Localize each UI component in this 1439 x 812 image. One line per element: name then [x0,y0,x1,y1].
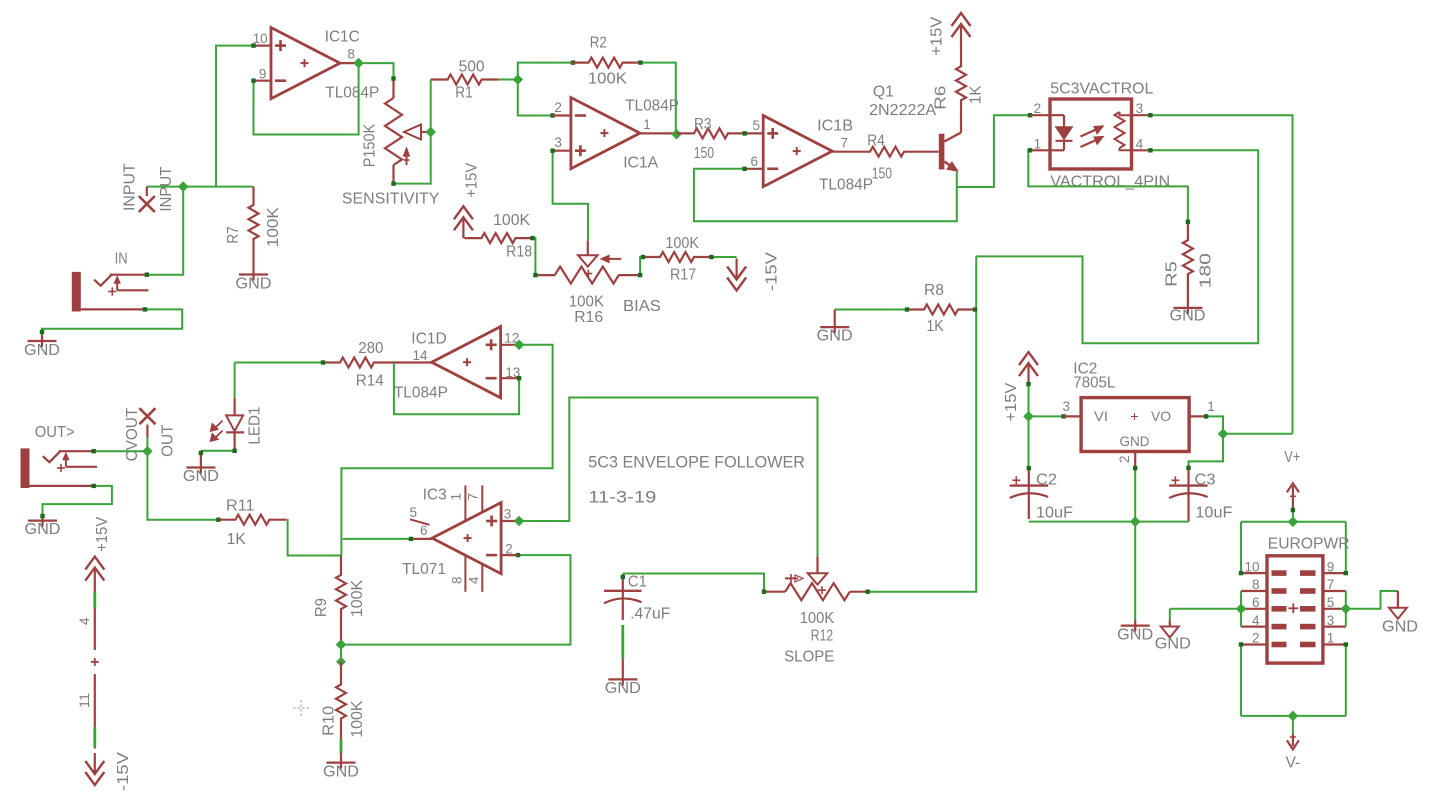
ground of OUT jack [28,514,57,527]
IC3 pin 1 [449,493,464,501]
svg-text:10uF: 10uF [1036,505,1073,522]
value 1K of R6 [968,85,985,104]
wire junction up to R2 [518,60,575,79]
svg-text:500: 500 [459,59,485,76]
wire junction down to IC1A pin2 [518,80,555,118]
pin 5 [752,118,760,133]
IC3 pin 5 [409,505,417,520]
EUROPWR pins [1241,570,1346,647]
connector EUROPWR box [1267,556,1323,663]
svg-text:8: 8 [1252,577,1260,592]
svg-text:GND: GND [24,342,60,359]
label IC1B [817,118,853,135]
node CVOUT junction [143,447,152,456]
wire IC2 out to C3 [1189,434,1224,468]
resistor R18 [465,233,533,243]
resistor R7 [249,187,259,275]
svg-text:R17: R17 [670,267,696,284]
svg-text:R1: R1 [455,84,473,101]
R12 wiper arrow [808,556,828,584]
supply -15V at R17 [727,259,746,291]
supply +15V above R6 [952,13,971,45]
op-amp IC1C [254,28,359,99]
label IN [115,250,128,267]
svg-text:EUROPWR: EUROPWR [1268,536,1350,553]
op-amp power pin 4 line [93,589,96,650]
wire wiper junction to R1 [430,80,432,133]
svg-text:150: 150 [872,165,892,182]
svg-text:INPUT: INPUT [158,166,175,211]
svg-text:280: 280 [358,340,383,357]
ground below C1 [608,679,637,685]
wire pin5 to GND symbol [1346,591,1398,609]
svg-text:GND: GND [1120,433,1150,449]
pin 7 [841,136,849,151]
vactrol pin 3 [1136,101,1144,116]
label -15V of op-amp power [115,752,132,791]
wire R18 to R16 [533,238,556,275]
op-amp power plus [91,658,99,666]
op-amp IC1A [553,98,676,169]
wire IC3 out to envelope [519,398,817,557]
value 2N2222A of Q1 [869,102,936,119]
svg-text:11-3-19: 11-3-19 [588,487,656,506]
resistor R17 [643,252,711,262]
label C3 [1195,472,1216,489]
wire CVOUT junction to R11 [147,451,220,522]
svg-text:R6: R6 [932,86,949,110]
label 5C3VACTROL [1050,80,1153,97]
svg-text:2: 2 [554,100,562,115]
svg-text:GND: GND [817,328,853,345]
svg-text:3: 3 [1062,399,1070,414]
value 500 of R1 [459,59,485,76]
svg-text:OUT: OUT [160,424,177,457]
wire rail to GND [1134,522,1136,620]
svg-text:IC1B: IC1B [817,118,853,135]
svg-text:R7: R7 [225,226,242,243]
node header pin5 junction [1341,604,1350,613]
svg-text:.47uF: .47uF [630,606,670,623]
svg-text:TL071: TL071 [402,561,446,578]
value 7805L of IC2 [1073,375,1115,392]
value 280 of R14 [358,340,383,357]
svg-text:1: 1 [449,493,464,501]
svg-text:1: 1 [643,117,651,132]
label R7 [225,226,242,243]
origin cross [293,700,309,716]
wire R16 to R17 [640,257,643,275]
label R8 [924,282,944,299]
C3 plus mark [1171,476,1179,484]
svg-text:5: 5 [752,118,760,133]
label EUROPWR [1268,536,1350,553]
supply +15V at R18 [454,206,473,238]
net label OUT [160,424,177,457]
label BIAS [623,298,661,315]
value 100K of R7 [265,207,282,247]
wire ground rail [1029,521,1189,523]
svg-text:R5: R5 [1164,261,1181,287]
svg-text:180: 180 [1197,253,1214,289]
svg-text:TL084P: TL084P [325,84,379,101]
wire IC2 pin2 to ground rail [1134,468,1136,521]
svg-text:GND: GND [183,468,219,485]
label R14 [356,373,384,390]
label +15V above R6 [929,16,946,55]
transistor Q1 [939,117,961,171]
wire C1 top to R12 [623,574,764,592]
vactrol photoresistor [1115,112,1132,150]
node IC3 output junction [515,516,524,525]
wire R8 left to GND [835,307,910,311]
label C1 [628,574,647,591]
op-amp IC1D [391,327,519,398]
svg-text:14: 14 [413,348,428,363]
IC3 pin 6 [420,523,428,538]
R12 rotation arrow [785,574,803,583]
wire OUT sleeve to GND [43,484,112,514]
IC3 balance pins [465,485,482,591]
pin 12 [504,330,519,345]
value 10uF of C2 [1036,505,1073,522]
ground below R7 [239,275,268,281]
svg-text:GND: GND [1117,627,1153,644]
node IC1C output junction [354,59,363,68]
svg-text:GND: GND [236,275,272,292]
svg-text:5: 5 [409,505,417,520]
svg-text:-15V: -15V [115,752,132,791]
potentiometer R16 [535,267,640,284]
label +15V above IC2 [1003,382,1020,421]
label R6 [932,86,949,110]
svg-text:3: 3 [504,507,512,522]
value 1K of R11 [227,531,246,548]
svg-text:1K: 1K [968,85,985,104]
wire IC1C feedback out to pin9 [251,63,358,134]
resistor R9 [336,556,346,645]
pin 4 label [77,617,92,625]
pin 1 [643,117,651,132]
svg-text:11: 11 [77,693,92,708]
label LED1 [247,407,264,445]
wire V+ to header [1292,508,1294,522]
svg-text:IC1C: IC1C [325,28,360,45]
svg-text:7: 7 [1327,577,1335,592]
svg-text:R12: R12 [811,627,833,644]
label OUT> [35,424,75,441]
svg-text:2: 2 [1034,101,1042,116]
svg-text:4: 4 [1136,136,1144,151]
label R3 [694,116,712,133]
svg-text:R8: R8 [924,282,944,299]
IC3 pin 8 [450,576,465,584]
svg-text:TL084P: TL084P [394,385,448,402]
svg-text:SLOPE: SLOPE [784,649,834,666]
svg-text:3: 3 [1327,613,1335,628]
ground below R5 [1173,291,1202,314]
label IC1C [325,28,360,45]
wire junction to IC2 pin3 [1029,414,1066,418]
svg-text:R3: R3 [694,116,712,133]
supply V- arrow [1287,734,1299,749]
LED1 emission arrows [210,421,222,442]
node IC1A output junction [672,130,681,139]
svg-text:9: 9 [1327,559,1335,574]
wire IC1D feedback [394,363,521,415]
svg-text:+: + [1130,408,1138,424]
svg-text:IC1D: IC1D [411,331,446,348]
wire IC1A pin3 to BIAS wiper [550,149,588,241]
R12 plus mark [818,586,826,594]
potentiometer P150K [385,79,421,184]
label V+ [1284,449,1300,466]
label V- [1286,755,1301,772]
svg-text:6: 6 [420,523,428,538]
C2 plus mark [1012,476,1020,484]
svg-text:R4: R4 [867,133,885,150]
node P150K wiper junction [426,127,435,136]
svg-text:100K: 100K [800,610,835,627]
value 150 of R3 [694,145,714,162]
svg-text:1K: 1K [227,531,246,548]
svg-text:2: 2 [505,542,513,557]
voltage regulator IC2 box [1064,398,1207,469]
svg-text:100K: 100K [493,212,530,229]
node R1 output junction [513,75,522,84]
label IC2 [1073,360,1097,377]
resistor R14 [323,358,391,368]
svg-text:2N2222A: 2N2222A [869,102,936,119]
date 11-3-19 [588,487,656,506]
supply +15V of op-amp power [85,557,104,589]
svg-text:SENSITIVITY: SENSITIVITY [342,191,440,208]
svg-text:TL084P: TL084P [625,98,679,115]
svg-text:1: 1 [1034,136,1042,151]
wire P150K bottom to wiper [394,132,431,184]
diode LED1 [226,398,244,451]
pin 6 [750,154,758,169]
wire Q1 emitter junction [957,113,1032,187]
jack IN [72,272,149,312]
supply -15V of op-amp power [85,753,104,785]
label R17 [670,267,696,284]
pin 11 label [77,693,92,708]
wire junction to jack tip [145,187,184,277]
wire IC1D pin12 to envelope net [341,345,552,556]
IC2 pin 2 [1117,455,1132,463]
svg-text:GND: GND [605,680,641,697]
svg-text:INPUT: INPUT [122,163,139,211]
vactrol pin 1 [1034,136,1042,151]
wire header pin1 down [1345,645,1347,716]
resistor R8 [907,305,975,315]
IC2 text VO [1151,408,1171,424]
svg-text:10uF: 10uF [1195,505,1232,522]
node R9 bottom junction [336,640,345,649]
R16 wiper arrow [578,241,598,267]
svg-text:VACTROL_4PIN: VACTROL_4PIN [1050,173,1170,190]
svg-text:7805L: 7805L [1073,375,1115,392]
label P150K [361,124,378,168]
wire R8 right up [975,256,976,309]
supply V+ arrow [1287,483,1299,508]
wire IC2 out to vactrol net [1223,433,1293,435]
svg-text:5C3VACTROL: 5C3VACTROL [1050,80,1153,97]
label +15V of op-amp power [94,516,111,551]
wire IC3 pin6 [343,537,413,541]
optocoupler 5C3VACTROL box [1030,99,1150,169]
net flag INPUT X [139,196,155,212]
svg-text:GND: GND [1170,308,1206,325]
label R1 [455,84,473,101]
label GND of R7 [236,275,272,292]
ground below rail [1121,620,1150,632]
node V- junction [1288,711,1297,720]
svg-text:GND: GND [323,763,359,780]
wire vactrol pin3 to 7805 out [1148,113,1292,434]
svg-text:3: 3 [1136,101,1144,116]
ground left of R8 [820,310,849,334]
IC3 pin 2 [505,542,513,557]
node INPUT junction [179,182,188,191]
wire R1 to junction [499,79,518,81]
svg-text:+15V: +15V [1003,382,1020,421]
label GND of OUT jack [25,521,61,538]
svg-text:-15V: -15V [764,252,781,291]
svg-text:V+: V+ [1284,449,1300,466]
svg-text:7: 7 [465,493,480,501]
wire IC2 pin1 to junction [1204,414,1223,434]
label R4 [867,133,885,150]
pin 2 [554,100,562,115]
wire INPUT net horizontal [147,186,254,188]
label R5 [1164,261,1181,287]
value 180 of R5 [1197,253,1214,289]
label TL084P of IC1A [625,98,679,115]
svg-text:Q1: Q1 [873,84,894,101]
svg-text:100K: 100K [349,579,366,617]
value 10uF of C3 [1195,505,1232,522]
svg-text:IC3: IC3 [423,487,447,504]
node R9-R10 junction [337,658,345,666]
pin contact dots [40,76,1348,646]
svg-text:8: 8 [450,576,465,584]
IC2 text plus [1130,408,1138,424]
svg-text:100K: 100K [665,235,699,252]
P150K wiper arrow [404,125,431,140]
resistor R11 [218,515,286,525]
net flag CVOUT X [139,408,155,424]
IC2 text VI [1094,408,1108,424]
value 150 of R4 [872,165,892,182]
wire header right to pin9 [1345,522,1347,573]
svg-text:BIAS: BIAS [623,298,661,315]
title 5C3 ENVELOPE FOLLOWER [588,453,805,472]
label GND of rail [1117,627,1153,644]
svg-text:6: 6 [750,154,758,169]
label +15V at R18 [463,162,480,197]
svg-text:VO: VO [1151,408,1171,424]
svg-text:2: 2 [1117,455,1132,463]
svg-text:LED1: LED1 [247,407,264,445]
value 1K of R8 [927,318,944,335]
svg-text:4: 4 [466,576,481,584]
svg-text:6: 6 [1252,595,1260,610]
svg-text:OUT>: OUT> [35,424,75,441]
label GND of C1 [605,680,641,697]
label IC3 [423,487,447,504]
resistor R6 [956,45,966,117]
ground below LED1 [186,451,215,474]
node IC1D pin12 junction [515,340,524,349]
svg-text:1: 1 [1327,631,1335,646]
label GND left of header [1155,636,1191,653]
svg-text:4: 4 [1252,613,1260,628]
svg-text:C1: C1 [628,574,647,591]
label GND of IN jack [24,342,60,359]
label R18 [506,244,532,261]
wire IC1C pin10 to INPUT net [216,43,256,186]
svg-text:R14: R14 [356,373,384,390]
svg-text:R10: R10 [320,706,337,736]
svg-text:+15V: +15V [463,162,480,197]
vactrol pin 4 [1136,136,1144,151]
IC2 pin 3 [1062,399,1070,414]
label IC1D [411,331,446,348]
EUROPWR plus mark [1288,603,1298,613]
ground triangle left of header [1161,621,1179,638]
op-amp power pin 11 line [93,674,96,749]
label TL084P of IC1C [325,84,379,101]
svg-text:VI: VI [1094,408,1108,424]
node IC2 output junction [1218,429,1227,438]
vactrol LED [1050,115,1073,150]
label R9 [313,598,330,617]
svg-text:1K: 1K [927,318,944,335]
svg-text:V-: V- [1286,755,1301,772]
label GND right of header [1382,618,1418,635]
node ground rail junction [1131,517,1140,526]
label TL071 [402,561,446,578]
svg-text:R18: R18 [506,244,532,261]
vactrol pin 2 [1034,101,1042,116]
wire header top rail [1241,521,1346,523]
net flag CVOUT stub [146,425,148,452]
node header pin6 junction [1236,604,1245,613]
svg-text:TL084P: TL084P [819,177,873,194]
wire LED1 to GND [201,449,237,453]
potentiometer R12 [764,583,868,600]
svg-text:10: 10 [1244,559,1259,574]
svg-text:9: 9 [259,66,267,81]
label SLOPE [784,649,834,666]
capacitor C2 [1010,468,1048,519]
net flag INPUT stub [146,187,148,196]
R16 plus mark [584,270,592,278]
svg-text:GND: GND [25,521,61,538]
jack OUT [21,448,98,488]
label GND of R5 [1170,308,1206,325]
resistor R3 [677,128,746,138]
pin 13 [505,365,520,380]
IC2 text GND [1120,433,1150,449]
svg-text:1: 1 [1207,399,1215,414]
label R12 [811,627,833,644]
IC2 pin 1 [1207,399,1215,414]
R16 rotation arrow [601,255,621,262]
net label INPUT right [158,166,175,211]
